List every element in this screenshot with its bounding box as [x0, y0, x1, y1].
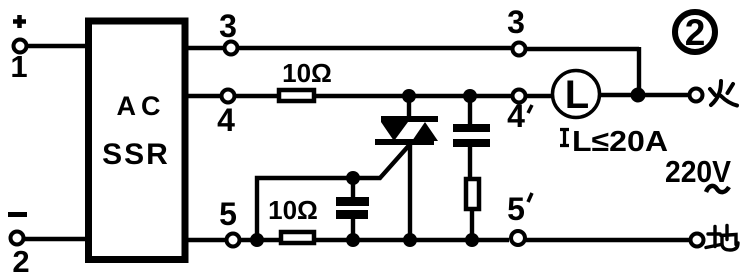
terminal 2 minus sign: [8, 212, 27, 217]
svg-text:AC: AC: [117, 91, 166, 121]
terminal 4' circle: [513, 90, 526, 103]
resistor R3 lead bottom: [470, 209, 474, 240]
lamp L circle: [553, 71, 600, 118]
junction gate bottom: [250, 233, 264, 247]
svg-text:1: 1: [10, 49, 27, 84]
terminal 1 plus sign: [13, 15, 26, 28]
terminal 5' circle: [511, 231, 525, 245]
junction net4 right: [631, 88, 646, 103]
svg-text:3: 3: [219, 8, 237, 44]
triac gate wire: [257, 142, 412, 240]
terminal 3 circle: [225, 42, 238, 55]
wire lamp to junction: [599, 93, 634, 97]
label 4 prime mark: [528, 105, 532, 113]
wire junction to fire terminal: [645, 93, 690, 97]
wire net3 terminal3' to corner: [527, 47, 639, 51]
resistor R1 10Ω: [279, 90, 314, 101]
label 5 prime mark: [528, 193, 532, 202]
wire net3 terminal3 to terminal3': [238, 46, 511, 50]
svg-text:2: 2: [685, 12, 706, 53]
earth terminal circle: [691, 234, 704, 247]
wire terminal1 to SSR box: [26, 44, 86, 48]
wire terminal4 to resistor R1: [234, 94, 280, 98]
wire R2 to terminal 5': [316, 238, 509, 242]
svg-text:3: 3: [507, 4, 525, 40]
capacitor C1 lead bottom: [351, 217, 355, 240]
label AC tilde: [706, 186, 729, 192]
svg-text:5: 5: [507, 191, 525, 227]
junction triac top: [402, 89, 416, 103]
figure number circled 2: [675, 12, 715, 52]
wire box to terminal 4: [187, 94, 221, 98]
wire box to terminal 5: [187, 238, 226, 242]
svg-text:2: 2: [12, 244, 29, 273]
junction capacitor C1 top: [346, 171, 360, 185]
terminal 5 circle: [227, 234, 240, 247]
capacitor C1 lead top: [351, 178, 355, 197]
triac lead from net4: [407, 94, 411, 117]
wire box to terminal 3: [187, 46, 224, 50]
triac V1 symbol: [375, 116, 438, 145]
capacitor C2 to resistor R3 wire: [468, 145, 472, 179]
SSR module box U1: [89, 21, 186, 260]
terminal 4 circle: [222, 90, 235, 103]
label 火 (live wire): [710, 81, 737, 106]
capacitor C1: [336, 197, 369, 219]
wire terminal2 to SSR box: [24, 237, 86, 241]
wire terminal5' to earth terminal: [526, 238, 690, 242]
svg-text:220V: 220V: [665, 154, 731, 189]
capacitor C2: [453, 124, 490, 147]
junction capacitor C1 bottom: [346, 233, 360, 247]
junction snubber top: [463, 89, 477, 103]
svg-text:10Ω: 10Ω: [268, 195, 318, 225]
label 地 (earth): [706, 226, 738, 251]
svg-text:10Ω: 10Ω: [282, 58, 332, 88]
triac lead to net5: [408, 144, 412, 240]
wire R1 to terminal 4': [316, 94, 511, 98]
junction R3 bottom: [465, 233, 479, 247]
terminal 3' circle: [513, 43, 526, 56]
svg-text:L≤20A: L≤20A: [572, 126, 668, 158]
svg-text:4: 4: [217, 102, 235, 138]
resistor R3: [466, 179, 479, 209]
svg-text:L: L: [565, 73, 589, 117]
fire line terminal circle: [690, 89, 703, 102]
svg-text:5: 5: [219, 196, 237, 232]
wire vertical drop net3 to net4: [637, 47, 641, 95]
resistor R2 10Ω: [281, 232, 314, 243]
capacitor C2 lead top: [468, 94, 472, 126]
label IL≤20A: [560, 128, 569, 147]
wire terminal5 to R2: [239, 238, 281, 242]
svg-text:4: 4: [507, 98, 525, 134]
junction triac bottom: [403, 233, 417, 247]
wire terminal4' to lamp: [527, 94, 553, 98]
terminal 1 circle: [14, 40, 27, 53]
svg-text:SSR: SSR: [102, 138, 170, 171]
terminal 2 circle: [11, 232, 24, 245]
